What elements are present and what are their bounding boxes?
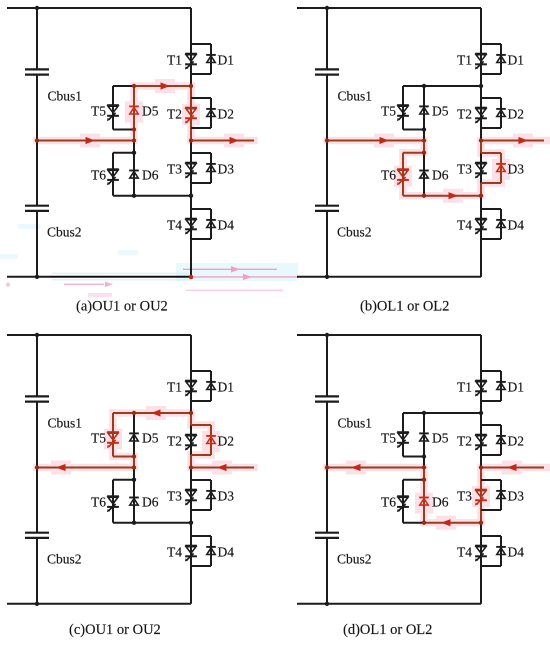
svg-text:T6: T6 xyxy=(381,168,396,183)
svg-text:T5: T5 xyxy=(91,431,106,446)
transistor T5 xyxy=(397,105,409,121)
node (red path junction) xyxy=(35,465,39,469)
label D4 xyxy=(508,545,525,560)
label D5 xyxy=(142,431,159,446)
transistor T2 xyxy=(185,435,197,451)
diode D4 xyxy=(206,220,216,228)
node (red path junction) xyxy=(132,465,136,469)
current direction arrow xyxy=(217,464,227,471)
transistor T1 xyxy=(185,381,197,397)
label D2 xyxy=(508,434,525,449)
wire T5 box top rail (node A to clamp branch) xyxy=(403,412,481,414)
svg-text:T2: T2 xyxy=(167,107,182,122)
wire D6 branch xyxy=(133,141,135,196)
diode D2 xyxy=(496,436,506,444)
current direction arrow xyxy=(507,464,517,471)
label T3 xyxy=(457,489,472,504)
svg-text:D4: D4 xyxy=(508,218,525,233)
svg-text:T6: T6 xyxy=(381,495,396,510)
diode D1 xyxy=(496,382,506,390)
label T2 xyxy=(167,434,182,449)
svg-text:D6: D6 xyxy=(142,168,159,183)
wire DC bus middle segment xyxy=(36,75,38,206)
wire AC output xyxy=(191,140,254,142)
wire DC bus lower segment xyxy=(36,538,38,604)
svg-text:Cbus2: Cbus2 xyxy=(337,552,372,567)
svg-text:D5: D5 xyxy=(432,104,449,119)
label T6 xyxy=(91,495,106,510)
wire DC bus lower segment xyxy=(326,211,328,277)
svg-text:D1: D1 xyxy=(218,380,235,395)
node (junction) xyxy=(479,84,483,88)
wire T1/D1 parallel branch box xyxy=(191,44,211,74)
node (red path junction) xyxy=(132,454,136,458)
wire T3/D3 parallel branch box xyxy=(191,480,211,510)
node (red path junction) xyxy=(132,127,136,131)
caption (d)OL1 or OL2 xyxy=(343,622,432,638)
diode D6 xyxy=(419,498,429,506)
capacitor Cbus2 xyxy=(25,206,49,211)
label T4 xyxy=(457,545,472,560)
wire T5 box bottom rail xyxy=(403,456,424,458)
node (red path junction) xyxy=(479,194,483,198)
node (red path junction) xyxy=(422,151,426,155)
wire T5 branch left side xyxy=(112,86,114,130)
diode D2 xyxy=(206,436,216,444)
wire top rail xyxy=(7,334,191,336)
label T6 xyxy=(91,168,106,183)
node (junction) xyxy=(132,194,136,198)
label D4 xyxy=(218,545,235,560)
label D2 xyxy=(218,434,235,449)
svg-text:D1: D1 xyxy=(218,53,235,68)
transistor T5 xyxy=(397,432,409,448)
svg-text:T2: T2 xyxy=(457,107,472,122)
wire main phase leg xyxy=(480,335,482,604)
wire AC output xyxy=(191,467,254,469)
capacitor Cbus1 xyxy=(25,396,49,401)
capacitor Cbus1 xyxy=(25,69,49,74)
highlighted current path glow (b) xyxy=(327,134,550,203)
node (red path junction) xyxy=(422,521,426,525)
capacitor Cbus1 xyxy=(315,69,339,74)
wire bottom rail xyxy=(7,603,191,605)
node (red path junction) xyxy=(189,84,193,88)
current direction arrow xyxy=(151,409,161,416)
node: bus top corner xyxy=(35,333,39,337)
label Cbus1 xyxy=(48,416,83,431)
wire AC output xyxy=(481,467,544,469)
node (red path junction) xyxy=(325,465,329,469)
label D1 xyxy=(508,380,525,395)
wire T6 box bottom rail (to node B) xyxy=(113,195,191,197)
capacitor Cbus2 xyxy=(25,533,49,538)
node (red path junction) xyxy=(479,138,483,142)
svg-text:D6: D6 xyxy=(432,168,449,183)
caption (c)OU1 or OU2 xyxy=(69,622,161,638)
wire D6 branch xyxy=(133,468,135,523)
caption (b)OL1 or OL2 xyxy=(360,299,449,315)
diode D6 xyxy=(129,171,139,179)
highlighted current path glow (d) xyxy=(327,461,550,530)
current direction arrow xyxy=(441,519,451,526)
diode D6 xyxy=(129,498,139,506)
svg-text:T6: T6 xyxy=(91,495,106,510)
svg-text:D5: D5 xyxy=(432,431,449,446)
svg-text:D3: D3 xyxy=(508,489,525,504)
wire D5 branch xyxy=(423,413,425,468)
capacitor Cbus2 xyxy=(315,206,339,211)
svg-text:D2: D2 xyxy=(218,434,235,449)
svg-text:T1: T1 xyxy=(167,53,182,68)
diode D3 xyxy=(496,491,506,499)
node (red path junction) xyxy=(479,521,483,525)
label D3 xyxy=(508,489,525,504)
wire top rail xyxy=(297,334,481,336)
wire T5 box top rail (node A to clamp branch) xyxy=(113,85,191,87)
svg-text:T4: T4 xyxy=(167,218,182,233)
svg-text:D5: D5 xyxy=(142,104,159,119)
label T2 xyxy=(457,434,472,449)
wire top rail xyxy=(7,7,191,9)
svg-text:T3: T3 xyxy=(457,489,472,504)
svg-text:D5: D5 xyxy=(142,431,159,446)
svg-text:(a)OU1 or OU2: (a)OU1 or OU2 xyxy=(76,299,168,315)
node (red path junction) xyxy=(422,478,426,482)
wire main phase leg xyxy=(190,335,192,604)
transistor T4 xyxy=(475,219,487,235)
diode D5 xyxy=(129,106,139,114)
wire T5 branch left side xyxy=(402,413,404,457)
current direction arrow xyxy=(351,464,361,471)
wire bottom rail xyxy=(7,276,191,278)
compression ghost artifacts xyxy=(0,224,298,297)
wire DC midpoint clamp xyxy=(327,140,424,142)
transistor T6 xyxy=(107,496,119,512)
label D6 xyxy=(142,168,159,183)
wire DC bus upper segment xyxy=(326,335,328,396)
wire D6 branch xyxy=(423,468,425,523)
node (red path junction) xyxy=(189,138,193,142)
svg-text:(c)OU1 or OU2: (c)OU1 or OU2 xyxy=(69,622,161,638)
svg-text:D3: D3 xyxy=(218,489,235,504)
wire T2/D2 parallel branch box xyxy=(481,425,501,455)
wire T2/D2 parallel branch box xyxy=(481,98,501,128)
wire T6 box top rail xyxy=(403,479,424,481)
transistor T5 xyxy=(107,105,119,121)
label D3 xyxy=(218,162,235,177)
capacitor Cbus2 xyxy=(315,533,339,538)
label D1 xyxy=(508,53,525,68)
current direction arrow xyxy=(56,464,66,471)
wire DC bus middle segment xyxy=(36,402,38,533)
diode D2 xyxy=(496,109,506,117)
label D5 xyxy=(142,104,159,119)
caption (a)OU1 or OU2 xyxy=(76,299,168,315)
svg-text:Cbus2: Cbus2 xyxy=(47,225,82,240)
label T6 xyxy=(381,168,396,183)
wire T6 box bottom rail (to node B) xyxy=(403,195,481,197)
wire D5 branch xyxy=(423,86,425,141)
wire T6 box top rail xyxy=(403,152,424,154)
svg-text:Cbus2: Cbus2 xyxy=(337,225,372,240)
wire T4/D4 parallel branch box xyxy=(481,209,501,239)
svg-text:D3: D3 xyxy=(218,162,235,177)
svg-text:D1: D1 xyxy=(508,53,525,68)
label D5 xyxy=(432,104,449,119)
node (junction) xyxy=(422,127,426,131)
label T2 xyxy=(167,107,182,122)
label D3 xyxy=(218,489,235,504)
label Cbus2 xyxy=(337,552,372,567)
wire D5 branch xyxy=(133,413,135,468)
diode D2 xyxy=(206,109,216,117)
transistor T6 xyxy=(107,169,119,185)
label T4 xyxy=(167,545,182,560)
node (red path junction) xyxy=(132,138,136,142)
wire T1/D1 parallel branch box xyxy=(191,371,211,401)
wire T6 box bottom rail (to node B) xyxy=(113,522,191,524)
current direction arrow xyxy=(380,137,390,144)
node: bus top corner xyxy=(35,6,39,10)
svg-text:Cbus1: Cbus1 xyxy=(48,89,83,104)
label T1 xyxy=(167,53,182,68)
wire T6 branch left side xyxy=(402,480,404,523)
svg-text:T1: T1 xyxy=(457,380,472,395)
transistor T1 xyxy=(475,54,487,70)
wire DC midpoint clamp xyxy=(37,140,134,142)
label Cbus1 xyxy=(338,89,373,104)
label D6 xyxy=(432,495,449,510)
wire bottom rail xyxy=(297,276,481,278)
wire T6 branch left side xyxy=(112,153,114,196)
wire D5 branch xyxy=(133,86,135,141)
svg-text:T3: T3 xyxy=(167,162,182,177)
svg-text:D1: D1 xyxy=(508,380,525,395)
svg-text:D6: D6 xyxy=(142,495,159,510)
svg-text:T1: T1 xyxy=(167,380,182,395)
svg-text:D6: D6 xyxy=(432,495,449,510)
wire main phase leg xyxy=(480,8,482,277)
diode D4 xyxy=(496,547,506,555)
transistor T2 xyxy=(475,435,487,451)
svg-text:T5: T5 xyxy=(381,431,396,446)
transistor T1 xyxy=(185,54,197,70)
wire T3/D3 parallel branch box xyxy=(481,480,501,510)
label T3 xyxy=(167,162,182,177)
label T5 xyxy=(91,431,106,446)
label D6 xyxy=(432,168,449,183)
label T1 xyxy=(457,53,472,68)
current direction arrow xyxy=(519,137,529,144)
wire DC bus upper segment xyxy=(36,335,38,396)
svg-text:Cbus1: Cbus1 xyxy=(338,416,373,431)
label T2 xyxy=(457,107,472,122)
node (red path junction) xyxy=(132,411,136,415)
wire T5 box top rail (node A to clamp branch) xyxy=(113,412,191,414)
svg-text:T1: T1 xyxy=(457,53,472,68)
svg-text:T6: T6 xyxy=(91,168,106,183)
wire T1/D1 parallel branch box xyxy=(481,44,501,74)
label T5 xyxy=(381,431,396,446)
label T3 xyxy=(167,489,182,504)
diode D3 xyxy=(496,164,506,172)
label D1 xyxy=(218,380,235,395)
wire T5 box bottom rail xyxy=(403,129,424,131)
wire T6 branch left side xyxy=(402,153,404,196)
transistor T1 xyxy=(475,381,487,397)
diode D4 xyxy=(496,220,506,228)
label T6 xyxy=(381,495,396,510)
diode D3 xyxy=(206,164,216,172)
label T5 xyxy=(381,104,396,119)
label T1 xyxy=(167,380,182,395)
node (red path junction) xyxy=(325,138,329,142)
highlighted current path glow (c) xyxy=(37,406,254,475)
wire DC bus lower segment xyxy=(36,211,38,277)
node: bus bottom corner xyxy=(35,602,39,606)
wire T5 box bottom rail xyxy=(113,456,134,458)
diode D5 xyxy=(419,106,429,114)
svg-text:Cbus2: Cbus2 xyxy=(47,552,82,567)
diode D1 xyxy=(496,55,506,63)
label D2 xyxy=(508,107,525,122)
svg-text:D3: D3 xyxy=(508,162,525,177)
wire bottom rail xyxy=(297,603,481,605)
highlighted current path glow (a) xyxy=(37,79,254,148)
svg-text:Cbus1: Cbus1 xyxy=(338,89,373,104)
node (junction) xyxy=(189,194,193,198)
svg-text:(b)OL1 or OL2: (b)OL1 or OL2 xyxy=(360,299,449,315)
node (red path junction) xyxy=(422,194,426,198)
label D2 xyxy=(218,107,235,122)
current direction arrow xyxy=(230,137,240,144)
diode D5 xyxy=(129,433,139,441)
svg-text:D2: D2 xyxy=(218,107,235,122)
node (red path junction) xyxy=(132,84,136,88)
svg-text:T2: T2 xyxy=(167,434,182,449)
svg-text:T3: T3 xyxy=(457,162,472,177)
label Cbus2 xyxy=(47,225,82,240)
node: bus bottom corner xyxy=(325,602,329,606)
diode D3 xyxy=(206,491,216,499)
wire T5 branch left side xyxy=(112,413,114,457)
node (junction) xyxy=(422,411,426,415)
transistor T3 xyxy=(185,163,197,179)
svg-text:Cbus1: Cbus1 xyxy=(48,416,83,431)
transistor T4 xyxy=(185,219,197,235)
wire DC bus middle segment xyxy=(326,75,328,206)
svg-text:D4: D4 xyxy=(218,545,235,560)
wire T4/D4 parallel branch box xyxy=(191,209,211,239)
diode D6 xyxy=(419,171,429,179)
wire T1/D1 parallel branch box xyxy=(481,371,501,401)
transistor T3 xyxy=(475,163,487,179)
svg-text:D4: D4 xyxy=(508,545,525,560)
capacitor Cbus1 xyxy=(315,396,339,401)
wire DC midpoint clamp xyxy=(37,467,134,469)
svg-text:T4: T4 xyxy=(457,218,472,233)
label Cbus2 xyxy=(337,225,372,240)
svg-text:D2: D2 xyxy=(508,107,525,122)
node (red path junction) xyxy=(189,411,193,415)
node (red path junction) xyxy=(35,138,39,142)
node (red path junction) xyxy=(422,465,426,469)
wire main phase leg xyxy=(190,8,192,277)
svg-text:T5: T5 xyxy=(91,104,106,119)
transistor T3 xyxy=(185,490,197,506)
wire DC bus middle segment xyxy=(326,402,328,533)
wire T2/D2 parallel branch box xyxy=(191,425,211,455)
node (junction) xyxy=(422,454,426,458)
wire T3/D3 parallel branch box xyxy=(191,153,211,183)
svg-text:T4: T4 xyxy=(167,545,182,560)
wire DC bus upper segment xyxy=(36,8,38,69)
wire T4/D4 parallel branch box xyxy=(191,536,211,566)
node (junction) xyxy=(422,84,426,88)
diode D5 xyxy=(419,433,429,441)
svg-text:T2: T2 xyxy=(457,434,472,449)
current direction arrow xyxy=(86,137,96,144)
svg-text:D2: D2 xyxy=(508,434,525,449)
wire T6 box top rail xyxy=(113,479,134,481)
node: bus top corner xyxy=(325,6,329,10)
wire T6 box bottom rail (to node B) xyxy=(403,522,481,524)
label D5 xyxy=(432,431,449,446)
label Cbus1 xyxy=(338,416,373,431)
node (red path junction) xyxy=(479,465,483,469)
wire AC output xyxy=(481,140,544,142)
transistor T3 xyxy=(475,490,487,506)
label T4 xyxy=(457,218,472,233)
svg-text:T3: T3 xyxy=(167,489,182,504)
wire DC midpoint clamp xyxy=(327,467,424,469)
label Cbus1 xyxy=(48,89,83,104)
label D4 xyxy=(218,218,235,233)
wire T5 branch left side xyxy=(402,86,404,130)
wire top rail xyxy=(297,7,481,9)
node (junction) xyxy=(132,521,136,525)
label T3 xyxy=(457,162,472,177)
transistor T4 xyxy=(185,546,197,562)
node (junction) xyxy=(132,478,136,482)
label D4 xyxy=(508,218,525,233)
label T1 xyxy=(457,380,472,395)
node (red path junction) xyxy=(189,465,193,469)
node: bus bottom corner xyxy=(35,275,39,279)
wire T2/D2 parallel branch box xyxy=(191,98,211,128)
wire T5 box top rail (node A to clamp branch) xyxy=(403,85,481,87)
svg-text:(d)OL1 or OL2: (d)OL1 or OL2 xyxy=(343,622,432,638)
node (junction) xyxy=(479,411,483,415)
node (red path junction) xyxy=(422,138,426,142)
label D3 xyxy=(508,162,525,177)
diode D1 xyxy=(206,55,216,63)
label D1 xyxy=(218,53,235,68)
wire T6 branch left side xyxy=(112,480,114,523)
transistor T5 xyxy=(107,432,119,448)
wire D6 branch xyxy=(423,141,425,196)
diode D1 xyxy=(206,382,216,390)
label T4 xyxy=(167,218,182,233)
svg-text:T5: T5 xyxy=(381,104,396,119)
label T5 xyxy=(91,104,106,119)
node: bus top corner xyxy=(325,333,329,337)
transistor T6 xyxy=(397,169,409,185)
node (junction) xyxy=(132,151,136,155)
label Cbus2 xyxy=(47,552,82,567)
node (junction) xyxy=(189,521,193,525)
